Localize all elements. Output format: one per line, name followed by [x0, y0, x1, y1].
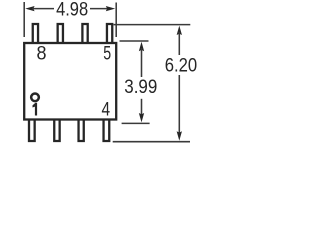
pin 3 lead (bottom row): [79, 120, 84, 142]
dim 4.98 left line segment: [32, 8, 54, 10]
svg-text:4.98: 4.98: [56, 0, 88, 21]
pin 5 lead (top row, rightmost): [107, 24, 112, 43]
pin 2 lead (bottom row): [54, 120, 59, 142]
dim 3.99 up arrow: [139, 42, 144, 51]
dim 3.99 bottom extension line: [122, 122, 150, 124]
dim 6.20 up arrow: [177, 26, 182, 35]
dim 3.99 down arrow: [139, 113, 144, 122]
pin 8 lead (top row, leftmost): [33, 24, 38, 43]
pin 1 index circle: [31, 93, 39, 101]
pin 4 lead (bottom row, rightmost): [104, 120, 110, 142]
dim 3.99 upper line segment: [141, 48, 143, 77]
dim 4.98 right arrow: [106, 6, 115, 11]
dim 6.20 upper line segment: [178, 32, 180, 55]
dim 3.99 top extension line: [120, 40, 149, 42]
dim 3.99 lower line segment: [141, 99, 143, 116]
dim 6.20 down arrow: [177, 131, 182, 140]
pin 1 lead (bottom row, leftmost): [29, 120, 35, 142]
svg-text:8: 8: [37, 44, 47, 65]
pin 7 lead (top row): [58, 24, 63, 43]
pin number 1: [33, 103, 38, 116]
svg-text:6.20: 6.20: [165, 55, 197, 76]
svg-text:5: 5: [103, 44, 111, 65]
dim 4.98 right line segment: [90, 8, 109, 10]
dim 6.20 lower line segment: [178, 75, 180, 135]
pin 6 lead (top row): [82, 24, 87, 43]
dim 4.98 right extension line: [115, 3, 117, 38]
dim 4.98 left extension line: [23, 2, 25, 37]
svg-text:4: 4: [101, 100, 110, 121]
dim 6.20 bottom extension line: [113, 141, 190, 143]
package body U1: [24, 43, 116, 120]
dim 6.20 top extension line: [114, 24, 191, 26]
dim 4.98 left arrow: [25, 6, 34, 11]
svg-text:3.99: 3.99: [124, 77, 157, 98]
